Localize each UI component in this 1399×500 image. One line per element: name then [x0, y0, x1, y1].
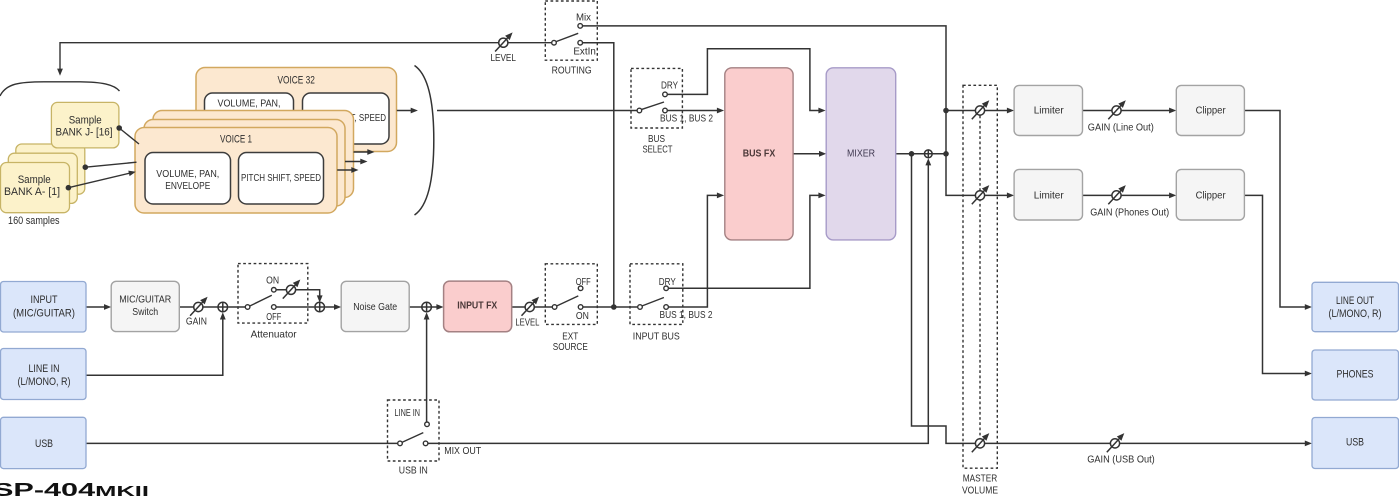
- svg-text:BANK A- [1]: BANK A- [1]: [4, 186, 60, 198]
- svg-text:SELECT: SELECT: [643, 144, 673, 156]
- svg-text:MASTER: MASTER: [963, 473, 998, 485]
- svg-text:BUS FX: BUS FX: [743, 148, 776, 160]
- svg-text:VOLUME: VOLUME: [962, 485, 998, 497]
- svg-text:MIX OUT: MIX OUT: [444, 445, 481, 457]
- svg-text:ExtIn: ExtIn: [573, 46, 596, 58]
- svg-text:Attenuator: Attenuator: [251, 329, 297, 341]
- svg-text:INPUT BUS: INPUT BUS: [633, 331, 680, 343]
- svg-text:160 samples: 160 samples: [8, 215, 60, 227]
- svg-text:PHONES: PHONES: [1337, 368, 1374, 380]
- svg-text:BUS 1, BUS 2: BUS 1, BUS 2: [660, 113, 713, 125]
- svg-text:DRY: DRY: [661, 79, 678, 91]
- svg-text:INPUT FX: INPUT FX: [457, 299, 497, 311]
- svg-text:Clipper: Clipper: [1196, 190, 1226, 202]
- svg-text:(MIC/GUITAR): (MIC/GUITAR): [13, 308, 75, 320]
- svg-text:LEVEL: LEVEL: [515, 316, 539, 328]
- svg-text:USB IN: USB IN: [399, 465, 428, 477]
- svg-text:Switch: Switch: [132, 306, 158, 318]
- svg-text:ENVELOPE: ENVELOPE: [165, 180, 210, 192]
- svg-text:ON: ON: [266, 275, 279, 287]
- svg-text:LINE OUT: LINE OUT: [1336, 295, 1374, 307]
- svg-text:SOURCE: SOURCE: [553, 341, 588, 353]
- svg-text:Sample: Sample: [69, 115, 102, 127]
- svg-text:OFF: OFF: [576, 276, 591, 288]
- svg-text:BANK J- [16]: BANK J- [16]: [56, 127, 113, 139]
- svg-text:Noise Gate: Noise Gate: [353, 301, 397, 313]
- svg-text:GAIN (USB Out): GAIN (USB Out): [1087, 454, 1155, 466]
- svg-text:MIC/GUITAR: MIC/GUITAR: [119, 294, 171, 306]
- svg-text:USB: USB: [1346, 437, 1364, 449]
- svg-text:SP-404MKII: SP-404MKII: [0, 480, 149, 500]
- svg-text:Limiter: Limiter: [1034, 105, 1064, 117]
- svg-text:INPUT: INPUT: [31, 294, 58, 306]
- svg-text:Sample: Sample: [18, 174, 51, 186]
- svg-text:LINE IN: LINE IN: [29, 363, 60, 375]
- svg-text:VOLUME, PAN,: VOLUME, PAN,: [218, 98, 281, 110]
- svg-text:GAIN (Phones Out): GAIN (Phones Out): [1090, 207, 1169, 219]
- svg-text:USB: USB: [35, 438, 53, 450]
- svg-text:(L/MONO, R): (L/MONO, R): [1329, 308, 1382, 320]
- svg-text:BUS 1, BUS 2: BUS 1, BUS 2: [660, 309, 713, 321]
- svg-text:Limiter: Limiter: [1034, 190, 1064, 202]
- svg-text:Mix: Mix: [576, 11, 592, 23]
- svg-text:Clipper: Clipper: [1196, 105, 1226, 117]
- svg-text:GAIN (Line Out): GAIN (Line Out): [1088, 121, 1154, 133]
- svg-text:DRY: DRY: [659, 276, 676, 288]
- svg-text:ROUTING: ROUTING: [552, 65, 592, 77]
- svg-text:LEVEL: LEVEL: [490, 52, 516, 64]
- svg-text:PITCH SHIFT, SPEED: PITCH SHIFT, SPEED: [241, 172, 321, 184]
- svg-text:(L/MONO, R): (L/MONO, R): [18, 376, 71, 388]
- svg-text:LINE IN: LINE IN: [395, 408, 421, 419]
- svg-text:ON: ON: [576, 310, 589, 322]
- svg-text:VOICE 32: VOICE 32: [277, 74, 315, 86]
- svg-text:VOICE 1: VOICE 1: [220, 133, 252, 145]
- svg-text:MIXER: MIXER: [847, 148, 875, 160]
- svg-text:OFF: OFF: [266, 311, 281, 323]
- svg-text:VOLUME, PAN,: VOLUME, PAN,: [156, 168, 219, 180]
- svg-text:GAIN: GAIN: [186, 315, 207, 327]
